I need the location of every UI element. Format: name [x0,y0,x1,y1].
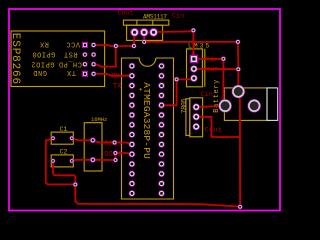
via H [174,77,179,82]
C1 pads [51,136,56,141]
wire 7805 pin1 to battery left pad [196,105,225,108]
wire via V3 up to via V2 [114,153,116,160]
ATMEGA pad pin6 [129,112,136,119]
LM35 pin1 dot [193,52,195,54]
ATMEGA pad pin23 [158,112,165,119]
svg-text:ESP8266: ESP8266 [9,33,21,85]
wire LM35 pin1 to via E (Cin) [194,58,224,60]
ATMEGA pad pin4 [129,92,136,99]
wire via C to via D (GND bus top) [144,41,238,43]
C2 pads [51,159,56,164]
pad ESP row4 TX [91,71,96,76]
wire via G down to LM35 pin1 [192,30,194,59]
battery connector outline [224,88,267,121]
7805 outline body [190,98,203,137]
ATMEGA pad pin14 [129,190,136,197]
wire via V1 to ATMEGA pin9 [115,143,132,145]
via E [221,56,226,61]
ATMEGA pad pin25 [158,92,165,99]
crystal pad2 [90,157,96,163]
svg-text:GND: GND [33,68,47,76]
pad ESP row3 CH_PD [91,61,96,66]
svg-text:RX: RX [39,39,49,47]
wire AMS1117 pad3 to via G [154,31,194,32]
via B [131,44,136,49]
7805 tab [186,99,190,136]
wire ESP TX to ATMEGA pin2 (RX) [94,74,132,76]
pad ESP row2 GPIO0 [82,52,87,57]
ATMEGA pad pin28 [158,63,165,70]
wire ESP VCC to via A [94,45,116,46]
capacitor C2 outline [51,155,73,167]
svg-text:C1: C1 [60,126,68,133]
wire LM35 pin2 to via F (GND) [194,68,238,70]
capacitor C1 outline [51,132,73,144]
wire C1 right pad to crystal pad1 [72,138,93,140]
wire LM35 pin3 to via H [177,78,194,79]
ATMEGA pad pin22 [158,122,165,129]
wire via E down to battery + rail [222,59,224,107]
via D [235,39,240,44]
via C [142,39,147,44]
ATMEGA pad pin8 [129,131,136,138]
svg-text:7805: 7805 [181,98,189,113]
crystal pad1 [90,137,96,143]
wire AMS1117 pad2 down to via C [143,32,145,42]
via V1 [112,140,117,145]
ATMEGA pad pin26 [158,82,165,89]
ATMEGA pad pin18 [158,161,165,168]
ATMEGA pad pin2 [129,73,136,80]
pad ESP row2 RST [91,52,96,57]
via BL [73,182,78,187]
svg-text:RST: RST [63,50,77,58]
svg-text:TX: TX [66,68,76,76]
svg-text:GPIO2: GPIO2 [31,59,55,67]
LM35 pin2 pad [190,65,197,72]
LM35 outline [187,49,203,87]
ATMEGA pad pin15 [158,190,165,197]
ATMEGA origin dot [140,89,142,91]
ESP8266 module outline [11,31,105,87]
ATMEGA pad pin9 [129,141,136,148]
pad ESP row1 RX (square) [82,42,88,48]
wire 7805 pin2 jog [196,117,240,137]
ATMEGA pad pin11 [129,161,136,168]
AMS1117 outline (SOT223 tab strip + body) [123,20,168,25]
via V2 [113,151,118,156]
wire via BL down along board bottom to via BR [75,185,240,207]
svg-text:GPIO0: GPIO0 [32,50,56,58]
wire C2 right pad to crystal pad2 [72,160,93,161]
ATMEGA pad pin3 [129,82,136,89]
LM35 pin1 square pad [190,55,199,64]
LM35 pin3 pad [190,75,197,82]
svg-text:AMS1117: AMS1117 [143,13,167,20]
ESP8266 pin label row1 VCC/RX [31,39,82,76]
7805 pin3 pad [193,123,200,130]
svg-text:Cout: Cout [118,10,134,17]
svg-text:Cout: Cout [205,127,222,134]
wire via B up to AMS1117 pad1 [133,32,136,46]
AMS1117 pad1 Cout [130,28,139,37]
pad ESP row3 GPIO2 [82,61,87,66]
pad ESP row4 GND (square) [82,71,88,77]
wire C1 left pad GND down to via BL [46,138,76,184]
via G [191,28,196,33]
via F [236,67,241,72]
7805 pin1 pad [193,103,200,110]
wire via H down to ATMEGA right pad row5 [162,79,177,105]
ATMEGA pad pin1 [129,63,136,70]
svg-text:VCC: VCC [66,39,80,47]
AMS1117 pad3 Cin [149,28,158,37]
crystal X1 16MHz outline [84,123,102,171]
AMS1117 pin ticks [137,20,153,25]
svg-text:C2: C2 [60,149,68,156]
via BR [238,204,243,209]
wire via A down to ESP CH_PD [94,46,116,67]
wire via V2 to ATMEGA pin10 [115,153,131,154]
battery pad left [218,99,232,113]
ATMEGA pad pin7 [129,122,136,129]
ATMEGA pad pin10 [129,151,136,158]
ATMEGA pad pin24 [158,102,165,109]
battery pad right [247,99,261,113]
ATMEGA328P-PU outline with pin1 notch [122,58,174,199]
svg-text:LM35: LM35 [188,42,211,49]
board outline (edge) [9,9,280,211]
svg-text:ATMEGA328P-PU: ATMEGA328P-PU [141,82,152,159]
7805 pin2 pad [193,113,200,120]
ATMEGA pad pin17 [158,171,165,178]
battery connector barrel (white) [267,88,278,121]
via A [113,44,118,49]
LM35 flat-side line [204,49,206,87]
svg-text:16MHz: 16MHz [91,116,107,123]
ATMEGA pad pin20 [158,141,165,148]
wire via A to via B [116,45,134,47]
AMS1117 pad2 GND [140,28,149,37]
ATMEGA pad pin21 [158,131,165,138]
svg-text:RX: RX [111,73,120,81]
wire C2 left pad GND down to via BL [53,161,75,185]
wire crystal pad2 to via V3 [93,159,116,161]
wire crystal pad1 to via V1 [93,140,115,142]
svg-text:Cin: Cin [201,91,213,98]
battery pad top [232,85,246,99]
ATMEGA pad pin13 [129,180,136,187]
svg-text:Cin: Cin [172,13,185,20]
ATMEGA pad pin5 [129,102,136,109]
wire GND bus via D down through battery pad to via BR [238,42,240,207]
ATMEGA pad pin27 [158,73,165,80]
ATMEGA pad pin16 [158,180,165,187]
svg-text:CH_PD: CH_PD [58,59,82,67]
ATMEGA pad pin19 [158,151,165,158]
via V3 [113,158,118,163]
ATMEGA pad pin12 [129,171,136,178]
pad ESP row1 VCC [91,42,96,47]
svg-text:TX: TX [113,83,122,91]
